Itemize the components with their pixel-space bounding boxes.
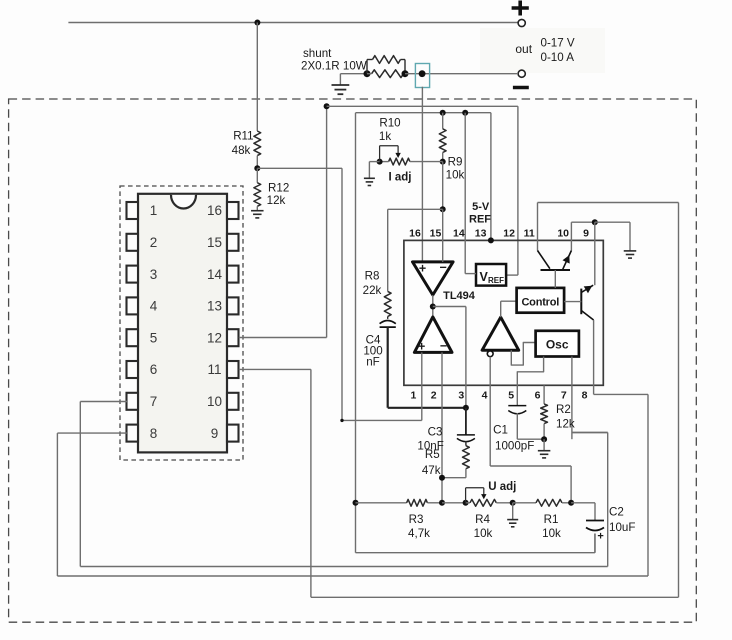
node EA1 EA2 output junction	[432, 295, 434, 317]
svg-text:2X0.1R 10W: 2X0.1R 10W	[301, 60, 367, 73]
svg-text:14: 14	[207, 267, 223, 282]
svg-text:+: +	[419, 261, 426, 275]
wire comparator apex to Control	[500, 301, 502, 317]
svg-text:6: 6	[150, 362, 158, 377]
op-amp error amplifier 2	[414, 317, 452, 353]
svg-text:R10: R10	[379, 117, 400, 130]
wire inner rectangle left/bottom to C2	[355, 113, 357, 553]
wire pin2 lead	[441, 352, 443, 502]
svg-text:11: 11	[207, 362, 221, 377]
op-amp error amplifier 1	[413, 262, 454, 295]
resistor R2	[541, 404, 548, 424]
wire C1 to ground node	[517, 438, 544, 440]
pin 2 DIP left	[127, 234, 139, 251]
wire R4 right	[496, 502, 512, 504]
pin 11 DIP right	[227, 361, 239, 378]
node divider junction	[254, 165, 260, 171]
svg-text:R5: R5	[425, 448, 440, 461]
svg-text:Control: Control	[521, 296, 559, 308]
wire DIP pin8 to TL494 pin8 net	[57, 432, 127, 434]
svg-text:shunt: shunt	[303, 47, 332, 60]
wire to R1	[513, 502, 536, 504]
ground pin9 pin10	[595, 221, 630, 223]
svg-text:12: 12	[207, 330, 222, 345]
wire Q1 emitter to pin9	[581, 285, 593, 292]
resistor R1	[536, 499, 562, 506]
pin 3 DIP left	[127, 266, 139, 283]
svg-text:R11: R11	[233, 130, 253, 143]
wire pin1 lead	[421, 352, 423, 420]
svg-text:U adj: U adj	[488, 481, 516, 493]
svg-text:C1: C1	[493, 423, 508, 436]
wire R9 to R8 tap	[442, 162, 444, 210]
pin 9 DIP right	[227, 425, 239, 442]
node timing ground	[541, 436, 547, 442]
wire Q1 collector to pin8	[581, 311, 593, 321]
svg-text:11: 11	[524, 228, 535, 240]
svg-text:5-V: 5-V	[472, 201, 490, 213]
svg-text:15: 15	[430, 228, 442, 240]
output terminal minus	[518, 70, 525, 77]
wire	[480, 28, 605, 73]
resistor shunt upper	[366, 60, 368, 74]
svg-text:I adj: I adj	[388, 172, 411, 184]
resistor R12	[256, 168, 258, 182]
transistor Q1	[580, 289, 582, 315]
node pin14 top	[462, 110, 468, 116]
svg-text:10k: 10k	[542, 527, 561, 540]
wire pin14 to VREF	[464, 113, 466, 274]
node positive rail junction	[254, 20, 260, 26]
svg-text:47k: 47k	[422, 464, 441, 477]
wire positive rail	[68, 22, 518, 24]
svg-text:10: 10	[557, 228, 569, 240]
pin 5 DIP left	[127, 329, 139, 346]
svg-text:REF: REF	[469, 213, 491, 225]
svg-text:22k: 22k	[363, 284, 382, 297]
comparator output circle	[487, 351, 493, 357]
svg-text:16: 16	[409, 228, 421, 240]
block Osc	[536, 331, 579, 357]
svg-text:C2: C2	[609, 505, 624, 518]
svg-text:3: 3	[150, 267, 158, 282]
wire R11 bottom lead	[256, 156, 258, 169]
svg-text:−: −	[440, 339, 447, 353]
svg-text:12k: 12k	[267, 194, 286, 207]
wire R3 to node	[427, 502, 442, 504]
svg-text:7: 7	[561, 389, 567, 401]
svg-text:R12: R12	[268, 182, 289, 195]
svg-text:1: 1	[410, 389, 416, 401]
output terminal plus	[518, 19, 525, 26]
svg-text:9: 9	[583, 228, 589, 240]
resistor shunt lower	[372, 70, 404, 78]
svg-text:4: 4	[150, 299, 158, 314]
svg-text:0-17 V: 0-17 V	[541, 37, 575, 50]
wire pin5 lead	[516, 385, 518, 405]
svg-text:10: 10	[207, 394, 222, 409]
svg-text:REF: REF	[488, 276, 504, 285]
block Control	[517, 288, 565, 313]
ground R4	[512, 503, 514, 520]
svg-text:10k: 10k	[446, 168, 465, 181]
svg-text:0-10 A: 0-10 A	[541, 51, 575, 64]
wire R11 top lead	[256, 23, 258, 132]
node shunt right	[402, 70, 409, 77]
svg-text:9: 9	[211, 426, 219, 441]
ground C1 R2	[543, 439, 545, 451]
wire pin11 net	[537, 203, 539, 251]
wire shunt left	[340, 73, 367, 75]
svg-text:R8: R8	[365, 270, 380, 283]
svg-text:13: 13	[475, 228, 487, 240]
wire DIP pin12 to TL494 pin12 net	[239, 337, 327, 339]
resistor R11	[254, 131, 261, 156]
svg-text:7: 7	[150, 394, 158, 409]
svg-text:C3: C3	[428, 425, 443, 438]
svg-text:8: 8	[582, 389, 588, 401]
node R4 left	[463, 500, 469, 506]
wire DIP pin11 to TL494 pin8 rail	[239, 368, 311, 370]
wire 5-V REF rail	[356, 112, 491, 114]
svg-text:R1: R1	[544, 513, 559, 526]
wire pin10	[570, 222, 572, 250]
block VREF	[476, 264, 506, 286]
node R4 ground node	[510, 500, 516, 506]
ground R12	[256, 206, 258, 210]
node R5 pin2 junction	[439, 475, 445, 481]
node pin9 junction	[592, 219, 598, 225]
svg-text:nF: nF	[366, 356, 380, 369]
svg-text:10k: 10k	[474, 527, 493, 540]
wire pin15 into EA1	[442, 209, 444, 262]
svg-text:R4: R4	[475, 513, 490, 526]
dashed enclosure box	[9, 99, 697, 622]
wire current sense to pin 16	[421, 87, 423, 262]
wire shunt to sense node	[405, 73, 518, 75]
pin 16 DIP right	[227, 202, 239, 219]
wire divider to pin1 net	[257, 167, 342, 169]
node row left	[353, 500, 359, 506]
wire pin4 DTC net	[489, 357, 491, 466]
svg-text:48k: 48k	[232, 144, 251, 157]
node pin2 row junction	[439, 500, 445, 506]
pin 15 DIP right	[227, 234, 239, 251]
resistor R5	[465, 441, 467, 446]
svg-text:5: 5	[150, 330, 158, 345]
svg-text:+: +	[597, 530, 603, 542]
pin 6 DIP left	[127, 361, 139, 378]
svg-text:14: 14	[453, 228, 465, 240]
svg-text:6: 6	[535, 389, 541, 401]
node R1 right junction	[568, 500, 574, 506]
pin 4 DIP left	[127, 297, 139, 314]
svg-text:16: 16	[207, 203, 222, 218]
ground R10	[369, 161, 379, 163]
wire C4 to pin3 node thick	[387, 327, 389, 408]
svg-text:Osc: Osc	[546, 338, 569, 352]
svg-text:4,7k: 4,7k	[408, 527, 430, 540]
svg-text:R2: R2	[556, 403, 571, 416]
capacitor C4	[380, 320, 396, 323]
svg-text:1: 1	[150, 203, 158, 218]
pin 14 DIP right	[227, 266, 239, 283]
IC DIP-16 body	[138, 194, 227, 453]
svg-text:−: −	[439, 261, 446, 275]
svg-text:+: +	[418, 339, 425, 353]
dashed box around DIP IC	[120, 186, 243, 460]
svg-text:R9: R9	[448, 156, 463, 169]
potentiometer R10	[389, 158, 410, 165]
ground shunt	[339, 74, 341, 85]
wire pin6 lead	[543, 385, 545, 404]
svg-text:12: 12	[503, 228, 515, 240]
wire Osc to pin7	[571, 357, 573, 440]
node R9 bottom	[440, 159, 446, 165]
pin 12 DIP right	[227, 329, 239, 346]
node pin3 junction	[463, 405, 469, 411]
IC notch	[171, 195, 196, 209]
svg-text:15: 15	[207, 235, 222, 250]
capacitor C1	[508, 405, 526, 407]
capacitor C3	[465, 408, 467, 435]
pin 7 DIP left	[127, 393, 139, 410]
svg-text:3: 3	[458, 389, 464, 401]
resistor R9	[442, 113, 444, 129]
wire Osc to pin5	[517, 357, 543, 386]
pin 1 DIP left	[127, 202, 139, 219]
wire Q1 base to Control	[564, 301, 581, 303]
wire row left	[356, 502, 407, 504]
svg-text:12k: 12k	[556, 418, 575, 431]
svg-text:8: 8	[150, 426, 158, 441]
node R9 top	[440, 110, 446, 116]
svg-text:1k: 1k	[379, 130, 391, 143]
svg-text:5: 5	[508, 389, 514, 401]
wire EA output to pin 3	[433, 306, 466, 308]
potentiometer R4	[466, 502, 470, 504]
svg-text:2: 2	[431, 389, 437, 401]
svg-text:13: 13	[207, 299, 222, 314]
plus symbol	[512, 6, 529, 10]
node pin13 on box edge	[488, 237, 494, 243]
wire R1 right	[562, 502, 571, 504]
svg-text:out: out	[515, 42, 532, 56]
pin 8 DIP left	[127, 425, 139, 442]
pin 13 DIP right	[227, 297, 239, 314]
wire R5 to pin2 net	[465, 469, 467, 478]
node current sense highlighted	[415, 64, 429, 88]
wire DIP pin7 to ground net	[80, 401, 127, 403]
minus symbol	[513, 86, 529, 90]
comparator PWM	[482, 317, 519, 350]
transistor Q2	[541, 269, 571, 271]
IC TL494 outline box	[404, 240, 603, 385]
svg-text:10uF: 10uF	[609, 521, 635, 534]
svg-text:4: 4	[482, 389, 488, 401]
resistor R8	[387, 209, 389, 291]
capacitor C2	[586, 520, 604, 522]
resistor R3	[407, 499, 428, 506]
svg-text:TL494: TL494	[443, 290, 476, 302]
svg-text:R3: R3	[409, 513, 424, 526]
svg-text:2: 2	[150, 235, 158, 250]
node shunt left	[364, 70, 371, 77]
pin 10 DIP right	[227, 393, 239, 410]
wire comparator to Osc	[511, 343, 535, 366]
wire to C2	[571, 502, 595, 504]
svg-text:1000pF: 1000pF	[495, 440, 534, 453]
wire Q2 base to Control	[554, 270, 556, 288]
